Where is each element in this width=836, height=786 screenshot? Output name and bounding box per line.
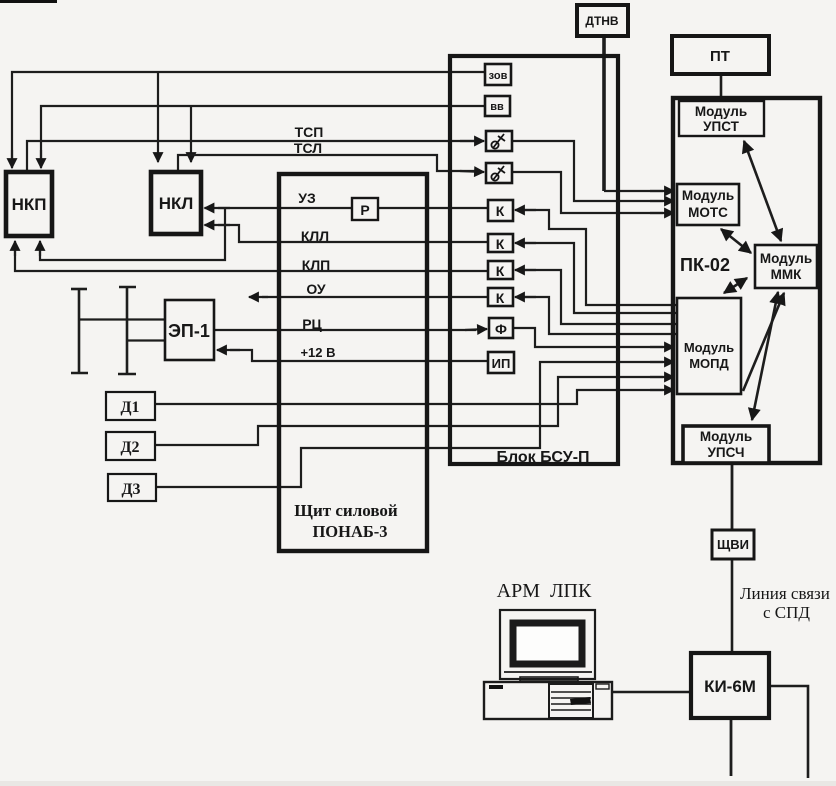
block thermometer1 xyxy=(486,131,512,151)
block Щит силовой ПОНАБ-3 xyxy=(279,174,427,551)
block К1 xyxy=(488,200,513,221)
block Блок БСУ-П xyxy=(450,56,618,464)
block НКЛ xyxy=(151,172,201,234)
wire ПТ to УПСТ xyxy=(720,75,723,101)
block Д1 xyxy=(106,392,155,420)
rail track symbol 1 xyxy=(71,289,88,373)
block Модуль ММК xyxy=(755,245,817,288)
arrow ММК-МОПД top xyxy=(724,278,747,293)
block Модуль УПСТ xyxy=(679,101,764,136)
wire УПСЧ to ЩВИ xyxy=(731,464,734,530)
svg-text:Линия связи: Линия связи xyxy=(740,584,830,603)
svg-text:Блок БСУ-П: Блок БСУ-П xyxy=(496,449,589,466)
wire ТСП: from НКП top to thermometer1 arrow xyxy=(27,141,475,171)
block Модуль УПСЧ xyxy=(683,426,769,463)
svg-text:Модуль: Модуль xyxy=(695,104,747,119)
wire К1 feed from МОПД ladder xyxy=(524,210,676,305)
svg-text:ЭП-1: ЭП-1 xyxy=(168,321,210,341)
arrow МОПД right to ММК xyxy=(743,293,784,391)
wire К2 feed xyxy=(524,243,676,313)
arrow МОТС-ММК xyxy=(721,229,751,253)
block Модуль МОПД xyxy=(677,298,741,394)
svg-text:НКЛ: НКЛ xyxy=(159,194,194,213)
block НКП xyxy=(6,172,52,236)
svg-text:УЗ: УЗ xyxy=(298,190,316,206)
svg-text:МОТС: МОТС xyxy=(688,205,728,220)
wire К4 feed xyxy=(524,297,676,334)
svg-text:УПСТ: УПСТ xyxy=(703,119,740,134)
wire ТСЛ: from НКЛ top, step down at x437, arrow into thermometer2 xyxy=(178,155,475,171)
block ПК-02 xyxy=(673,98,820,463)
wire: rail2 to ЭП-1 xyxy=(127,339,164,341)
svg-text:ТСЛ: ТСЛ xyxy=(294,140,322,156)
svg-text:РЦ: РЦ xyxy=(302,316,322,332)
svg-text:Р: Р xyxy=(360,202,369,218)
computer АРМ ЛПК: monitor xyxy=(484,610,612,719)
wire КИ-6М bottom drop xyxy=(730,719,733,776)
svg-text:ЩВИ: ЩВИ xyxy=(717,537,749,552)
svg-text:К: К xyxy=(496,236,505,252)
svg-text:КЛЛ: КЛЛ xyxy=(301,228,329,244)
arrow УПСТ-ММК xyxy=(744,141,781,241)
wire thermometer1 to МОТС arrow xyxy=(512,141,663,201)
svg-text:КЛП: КЛП xyxy=(302,257,330,273)
svg-text:ТСП: ТСП xyxy=(295,124,324,140)
scan mark top-left xyxy=(0,0,57,3)
svg-text:Модуль: Модуль xyxy=(684,340,734,355)
block эод xyxy=(485,64,511,85)
wire: rail1 to ЭП-1 xyxy=(79,318,164,320)
svg-text:+12 В: +12 В xyxy=(300,345,335,360)
svg-text:Модуль: Модуль xyxy=(760,251,812,266)
block К2 xyxy=(488,234,513,252)
wire: line2 from НКП top to вв xyxy=(41,106,486,162)
svg-text:вв: вв xyxy=(490,101,504,113)
wire Ф output to МОПД arrow xyxy=(513,328,663,347)
block ПТ xyxy=(672,36,769,74)
svg-text:НКП: НКП xyxy=(12,195,47,214)
wire КЛП: К3 left to НКП bottom arrow xyxy=(15,248,488,271)
block К3 xyxy=(488,261,513,279)
wire thermometer2 to МОТС arrow xyxy=(512,172,663,213)
wire ДТНВ drop to МОТС arrow xyxy=(602,37,606,191)
svg-text:Д1: Д1 xyxy=(120,399,139,416)
wire КЛЛ: К2 left to НКЛ right arrow with step xyxy=(218,225,488,242)
svg-text:К: К xyxy=(496,203,505,219)
svg-text:Д2: Д2 xyxy=(120,439,139,456)
svg-text:КИ-6М: КИ-6М xyxy=(704,677,756,696)
block Ф xyxy=(489,318,513,338)
block ЩВИ xyxy=(712,530,754,559)
svg-text:ПТ: ПТ xyxy=(710,48,730,65)
svg-text:Д3: Д3 xyxy=(121,481,140,498)
wire Д3 to МОПД arrow xyxy=(156,362,663,487)
svg-text:ОУ: ОУ xyxy=(306,281,326,297)
computer printer xyxy=(549,684,593,718)
svg-text:МОПД: МОПД xyxy=(689,356,729,371)
wire Д1 to МОПД arrow xyxy=(155,390,663,404)
svg-text:Ф: Ф xyxy=(495,321,507,337)
svg-text:ПОНАБ-3: ПОНАБ-3 xyxy=(312,522,387,541)
svg-text:Модуль: Модуль xyxy=(682,188,734,203)
svg-text:ПК-02: ПК-02 xyxy=(680,255,730,275)
svg-text:К: К xyxy=(496,263,505,279)
svg-text:Модуль: Модуль xyxy=(700,429,752,444)
svg-text:Щит силовой: Щит силовой xyxy=(294,501,398,520)
svg-text:ДТНВ: ДТНВ xyxy=(585,14,619,28)
thermometer glyph 1 xyxy=(491,134,505,149)
svg-text:УПСЧ: УПСЧ xyxy=(708,445,745,460)
block Р xyxy=(352,198,378,220)
block К4 xyxy=(488,288,513,306)
svg-text:ИП: ИП xyxy=(492,356,511,371)
wire +12В: ИП left to ЭП-1 right arrow with step xyxy=(230,350,488,361)
svg-text:с СПД: с СПД xyxy=(763,603,810,622)
wire: УЗ branch down to НКП bottom arrow xyxy=(40,208,225,260)
wire Д2 to МОПД arrow xyxy=(155,377,663,445)
wire: branch of line1 down to НКЛ top arrow xyxy=(157,72,159,162)
block ЭП-1 xyxy=(165,300,214,360)
wire АРМ to КИ-6М xyxy=(612,691,691,693)
block Модуль МОТС xyxy=(677,184,739,225)
wire ЩВИ to КИ-6М xyxy=(731,559,734,653)
wire УЗ: К1 left to НКЛ right arrow through Р xyxy=(218,207,488,209)
block ИП xyxy=(488,352,514,373)
svg-text:АРМ ЛПК: АРМ ЛПК xyxy=(497,580,592,602)
wire: line1 from НКП top-left up to y72 across to эод xyxy=(12,72,485,162)
block Д2 xyxy=(106,432,155,460)
svg-text:зов: зов xyxy=(489,70,508,82)
wire К3 feed xyxy=(524,270,676,324)
wire РЦ: ЭП-1 right to Ф arrow xyxy=(214,329,476,331)
wire КИ-6М right to edge drop xyxy=(769,686,808,778)
arrow ММК-УПСЧ xyxy=(752,292,778,420)
block thermometer2 xyxy=(486,163,512,183)
block КИ-6М xyxy=(691,653,769,718)
wire: branch of line2 down to НКЛ top arrow xyxy=(190,106,192,162)
rail track symbol 2 xyxy=(118,287,136,374)
block Д3 xyxy=(108,474,156,501)
wire: arrow of line1 into НКП top xyxy=(11,150,13,168)
svg-text:К: К xyxy=(496,290,505,306)
block ДТНВ xyxy=(577,5,628,36)
computer system unit xyxy=(484,682,612,719)
wire ОУ: from К4 left, arrow pointing left xyxy=(262,296,488,298)
svg-text:ММК: ММК xyxy=(771,267,802,282)
block вв xyxy=(485,96,510,116)
thermometer glyph 2 xyxy=(491,166,505,181)
